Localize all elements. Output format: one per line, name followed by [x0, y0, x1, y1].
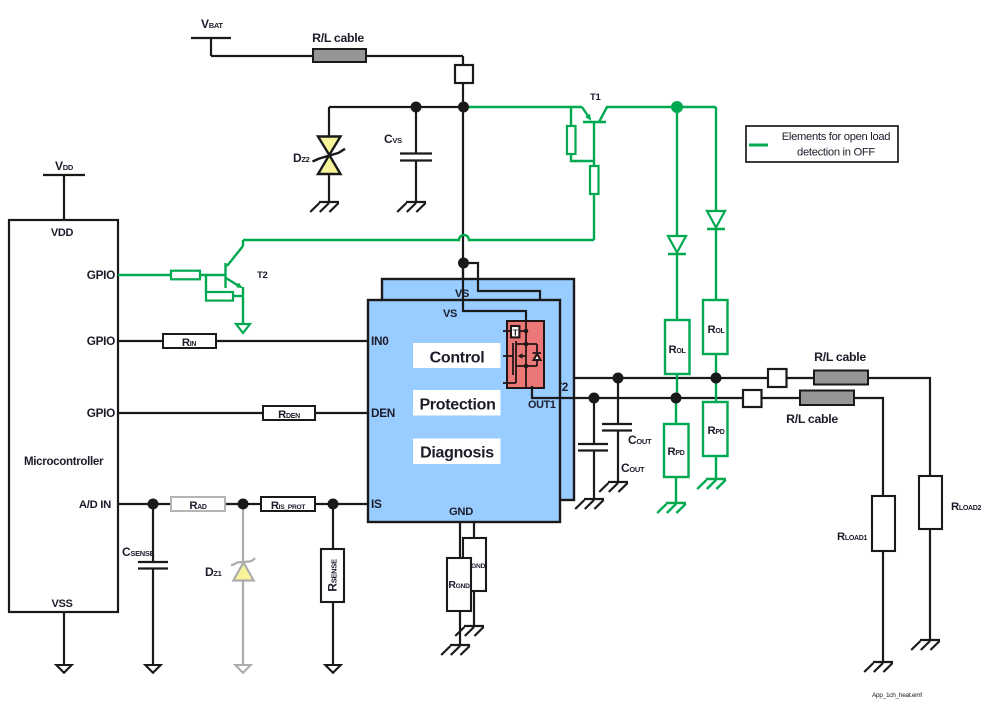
svg-text:VSS: VSS — [51, 598, 72, 610]
svg-text:R/L cable: R/L cable — [786, 412, 838, 426]
svg-text:Microcontroller: Microcontroller — [24, 456, 104, 468]
svg-text:IS: IS — [371, 497, 382, 511]
svg-text:Diagnosis: Diagnosis — [420, 445, 494, 462]
svg-text:OUT1: OUT1 — [528, 399, 556, 411]
svg-text:Protection: Protection — [419, 397, 495, 414]
svg-text:DEN: DEN — [371, 406, 395, 420]
svg-text:GND: GND — [449, 506, 473, 518]
svg-text:R/L cable: R/L cable — [814, 350, 866, 364]
svg-text:VS: VS — [443, 308, 457, 320]
svg-text:GPIO: GPIO — [87, 268, 115, 282]
svg-text:A/D IN: A/D IN — [79, 499, 111, 511]
svg-text:IN0: IN0 — [371, 334, 389, 348]
svg-text:GPIO: GPIO — [87, 406, 115, 420]
svg-text:T1: T1 — [590, 92, 602, 103]
svg-text:GPIO: GPIO — [87, 334, 115, 348]
svg-text:detection in OFF: detection in OFF — [797, 147, 875, 159]
svg-text:VDD: VDD — [51, 227, 74, 239]
svg-text:R/L cable: R/L cable — [312, 31, 364, 45]
svg-text:Control: Control — [430, 350, 485, 367]
svg-text:Elements for open load: Elements for open load — [782, 131, 891, 143]
svg-text:App_1ch_heat.emf: App_1ch_heat.emf — [872, 692, 922, 699]
svg-text:T2: T2 — [257, 270, 268, 281]
